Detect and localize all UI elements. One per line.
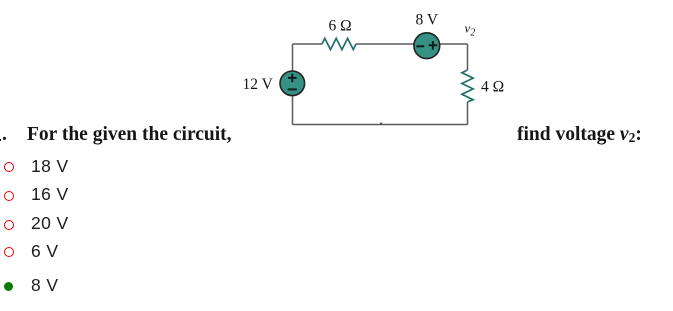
svg-text:4 Ω: 4 Ω (481, 79, 504, 96)
svg-text:8 V: 8 V (416, 12, 439, 29)
svg-text:12 V: 12 V (243, 76, 274, 93)
svg-text:v2: v2 (465, 21, 476, 39)
svg-text:6 Ω: 6 Ω (329, 18, 352, 35)
